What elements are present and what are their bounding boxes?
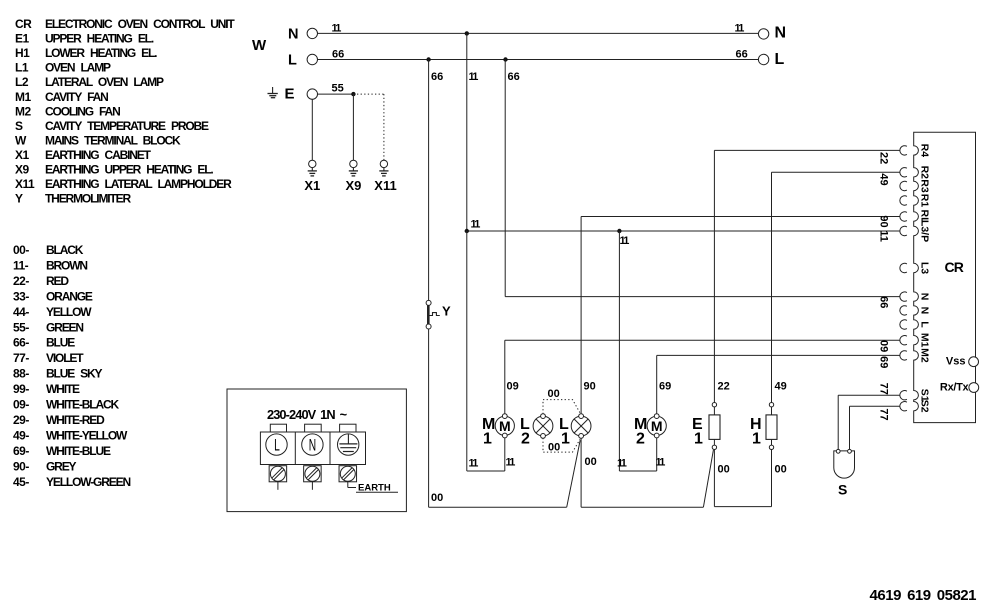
svg-text:00: 00 <box>431 492 443 504</box>
svg-text:L1: L1 <box>15 61 29 75</box>
wire 69 from M2 to CR pin M2 <box>657 355 900 414</box>
svg-text:M2: M2 <box>15 104 31 118</box>
svg-text:L3/P: L3/P <box>919 220 931 242</box>
svg-text:CAVITY TEMPERATURE PROBE: CAVITY TEMPERATURE PROBE <box>45 119 209 133</box>
svg-text:66: 66 <box>508 71 520 83</box>
CR pin labels <box>919 144 931 413</box>
wire 00 bus: E1 bottom to H1 bottom <box>714 506 771 508</box>
terminal W-N <box>288 27 317 43</box>
label 11 below junction <box>620 235 630 247</box>
svg-text:L: L <box>919 321 931 328</box>
terminal W-L <box>288 53 317 69</box>
svg-text:X11: X11 <box>15 177 35 191</box>
legend: wire colour codes <box>13 243 130 489</box>
svg-text:L: L <box>775 51 785 68</box>
svg-text:49: 49 <box>775 381 787 393</box>
wire 77 from S to CR pin S2 <box>850 406 900 449</box>
svg-text:OVEN LAMP: OVEN LAMP <box>45 61 111 75</box>
svg-text:ELECTRONIC OVEN CONTROL UNIT: ELECTRONIC OVEN CONTROL UNIT <box>45 17 235 31</box>
dashed jumper 00 L2 top to L1 top <box>543 388 580 414</box>
part number <box>870 587 977 604</box>
thermolimiter Y <box>426 300 451 329</box>
svg-text:00: 00 <box>548 442 560 454</box>
screw terminal L <box>269 466 287 490</box>
svg-text:W: W <box>15 133 27 147</box>
terminal block W label <box>252 37 267 54</box>
svg-text:M1: M1 <box>15 90 31 104</box>
svg-text:Y: Y <box>15 192 23 206</box>
svg-text:CR: CR <box>15 17 32 31</box>
junctions on L wire <box>426 57 507 61</box>
terminal tabs <box>270 424 356 432</box>
svg-text:11-: 11- <box>13 258 29 272</box>
svg-text:45-: 45- <box>13 475 29 489</box>
svg-text:M1: M1 <box>919 333 931 348</box>
svg-text:99-: 99- <box>13 382 29 396</box>
earthing X9 <box>345 160 361 193</box>
svg-text:R4: R4 <box>919 144 931 158</box>
svg-text:1: 1 <box>483 431 492 448</box>
label 11 right of N wire <box>735 23 745 35</box>
terminal N right <box>758 25 786 42</box>
terminal W-E <box>285 86 318 103</box>
earthing X11 <box>374 160 396 193</box>
wire 66 from L to CR pin N <box>505 60 900 297</box>
svg-text:M: M <box>651 418 663 434</box>
wire 00 bus: Y to L1 bottom <box>429 440 581 507</box>
mains voltage label <box>267 407 347 422</box>
svg-text:Rx/Tx: Rx/Tx <box>940 382 970 394</box>
wire 00 from H1 bottom <box>772 450 787 507</box>
svg-text:90: 90 <box>584 381 596 393</box>
junction on E wire <box>351 92 355 96</box>
svg-text:Vss: Vss <box>946 356 966 368</box>
svg-text:22: 22 <box>718 381 730 393</box>
legend: component list <box>15 17 235 206</box>
earth symbol at E <box>268 87 278 98</box>
svg-text:55: 55 <box>332 83 344 95</box>
svg-text:90: 90 <box>878 215 890 227</box>
electronic oven control unit CR box <box>914 132 976 422</box>
svg-text:X11: X11 <box>374 178 396 193</box>
svg-text:M2: M2 <box>919 348 931 363</box>
svg-text:BLACK: BLACK <box>46 243 84 257</box>
svg-text:22-: 22- <box>13 274 29 288</box>
svg-text:R1: R1 <box>919 194 931 208</box>
mains input block outline <box>227 389 406 512</box>
svg-text:66: 66 <box>736 49 748 61</box>
svg-text:09: 09 <box>878 340 890 352</box>
svg-text:UPPER HEATING EL.: UPPER HEATING EL. <box>45 32 154 46</box>
CR Vss terminal <box>946 356 979 368</box>
svg-text:RED: RED <box>46 274 69 288</box>
earthing X1 <box>304 160 320 193</box>
svg-text:N: N <box>919 293 931 301</box>
wire 00 from E1 bottom <box>714 450 729 507</box>
CR connector socket arcs <box>900 146 907 411</box>
wire 49 from H1 to CR pin R2 <box>772 172 900 402</box>
svg-text:N: N <box>288 27 298 43</box>
svg-text:R2: R2 <box>919 166 931 180</box>
svg-text:S: S <box>15 119 23 133</box>
svg-text:X9: X9 <box>345 178 361 193</box>
svg-text:77-: 77- <box>13 351 29 365</box>
svg-text:00: 00 <box>585 456 597 468</box>
svg-text:E: E <box>285 86 295 103</box>
svg-text:WHITE-YELLOW: WHITE-YELLOW <box>46 428 128 442</box>
svg-text:W: W <box>252 37 267 54</box>
svg-text:CR: CR <box>945 259 964 275</box>
svg-text:69: 69 <box>659 381 671 393</box>
terminal N circle <box>302 434 323 455</box>
svg-text:00: 00 <box>718 464 730 476</box>
label 66 right of L wire <box>736 49 748 61</box>
svg-text:90-: 90- <box>13 459 29 473</box>
rotated wire colour labels at CR pins <box>878 152 890 421</box>
motor M2 <box>634 414 666 448</box>
labels 11 at M2 bottom <box>617 457 665 470</box>
wire 11 down to M1 bottom <box>467 231 505 471</box>
wire 11 from N down <box>467 33 478 231</box>
svg-text:L2: L2 <box>15 75 29 89</box>
wire 55 to X9 <box>352 94 354 160</box>
svg-text:YELLOW: YELLOW <box>46 305 92 319</box>
wire 00 from Y to bottom bus <box>429 329 444 507</box>
wire E to X1 <box>311 99 313 160</box>
svg-text:66: 66 <box>878 296 890 308</box>
svg-text:BLUE: BLUE <box>46 336 75 350</box>
svg-text:BROWN: BROWN <box>46 258 87 272</box>
svg-text:33-: 33- <box>13 289 29 303</box>
wire 00 from L1 bottom down <box>581 438 597 507</box>
svg-text:LATERAL OVEN LAMP: LATERAL OVEN LAMP <box>45 75 164 89</box>
svg-text:88-: 88- <box>13 367 29 381</box>
svg-text:00: 00 <box>548 388 560 400</box>
svg-text:L3: L3 <box>919 262 931 274</box>
svg-text:WHITE: WHITE <box>46 382 80 396</box>
svg-text:CAVITY FAN: CAVITY FAN <box>45 90 108 104</box>
svg-text:X9: X9 <box>15 163 30 177</box>
svg-text:GREEN: GREEN <box>46 320 83 334</box>
terminal L right <box>758 51 784 68</box>
motor M1 <box>482 414 514 448</box>
svg-text:MAINS TERMINAL BLOCK: MAINS TERMINAL BLOCK <box>45 133 181 147</box>
svg-text:EARTHING CABINET: EARTHING CABINET <box>45 148 152 162</box>
screw terminal N <box>304 466 322 490</box>
svg-text:09-: 09- <box>13 398 29 412</box>
lamp L2 <box>520 414 553 448</box>
svg-text:4619 619 05821: 4619 619 05821 <box>870 587 977 604</box>
CR Rx/Tx terminal <box>940 382 979 394</box>
svg-text:1: 1 <box>694 431 703 448</box>
wire N 11 (brown) <box>318 23 759 35</box>
terminal L circle <box>266 434 287 455</box>
svg-text:49-: 49- <box>13 428 29 442</box>
dashed jumper 00 L2 bottom to L1 bottom <box>543 438 580 454</box>
terminal earth circle <box>338 434 359 455</box>
svg-text:29-: 29- <box>13 413 29 427</box>
lamp L1 <box>559 414 591 448</box>
terminal row <box>260 432 365 465</box>
heating element E1 <box>692 403 720 450</box>
svg-text:44-: 44- <box>13 305 29 319</box>
wire E 55 (green) <box>318 83 354 95</box>
svg-text:X1: X1 <box>304 178 320 193</box>
svg-text:ORANGE: ORANGE <box>46 289 93 303</box>
wire 77 from S to CR pin S1 <box>838 395 900 449</box>
svg-text:09: 09 <box>507 381 519 393</box>
svg-text:E1: E1 <box>15 32 30 46</box>
wire 00 bus: L1 bottom to E1 bottom <box>581 450 713 507</box>
junction on N wire <box>465 31 469 35</box>
svg-text:WHITE-BLACK: WHITE-BLACK <box>46 398 119 412</box>
svg-text:S: S <box>838 482 847 498</box>
svg-text:66-: 66- <box>13 336 29 350</box>
svg-text:THERMOLIMITER: THERMOLIMITER <box>45 192 132 206</box>
svg-text:WHITE-BLUE: WHITE-BLUE <box>46 444 111 458</box>
svg-text:69-: 69- <box>13 444 29 458</box>
svg-text:1: 1 <box>561 431 570 448</box>
svg-text:66: 66 <box>431 71 443 83</box>
svg-text:LOWER HEATING EL.: LOWER HEATING EL. <box>45 46 157 60</box>
svg-text:YELLOW-GREEN: YELLOW-GREEN <box>46 475 130 489</box>
svg-text:77: 77 <box>878 383 890 395</box>
screw terminal earth <box>339 466 357 488</box>
svg-text:00-: 00- <box>13 243 29 257</box>
wire 90 from L1 to CR pin RL <box>581 217 900 415</box>
svg-text:N: N <box>309 436 316 454</box>
wire 22 from E1 to CR pin R4 <box>714 150 899 402</box>
svg-text:H1: H1 <box>15 46 30 60</box>
svg-text:00: 00 <box>775 464 787 476</box>
svg-text:M: M <box>499 418 511 434</box>
svg-text:S2: S2 <box>919 400 931 413</box>
svg-text:2: 2 <box>636 431 645 448</box>
svg-text:2: 2 <box>521 431 530 448</box>
svg-text:VIOLET: VIOLET <box>46 351 84 365</box>
temperature probe S <box>834 449 855 497</box>
dashed wire to X11 <box>353 94 384 160</box>
svg-text:230-240V 1N ~: 230-240V 1N ~ <box>267 407 347 422</box>
svg-text:L: L <box>288 53 297 69</box>
wire 11 horizontal to CR pin L3/P <box>467 219 900 232</box>
svg-text:69: 69 <box>878 356 890 368</box>
svg-text:11: 11 <box>878 230 890 242</box>
svg-text:BLUE SKY: BLUE SKY <box>46 367 103 381</box>
svg-text:N: N <box>919 307 931 315</box>
svg-text:R3: R3 <box>919 179 931 193</box>
svg-text:N: N <box>775 25 787 42</box>
svg-text:COOLING FAN: COOLING FAN <box>45 104 120 118</box>
svg-text:Y: Y <box>442 304 451 319</box>
junction dots on 11 wire <box>465 229 622 233</box>
svg-text:L: L <box>274 436 280 454</box>
svg-text:49: 49 <box>878 173 890 185</box>
wire 11 junction down to M2 bottom <box>619 231 656 471</box>
EARTH label <box>356 483 398 494</box>
heating element H1 <box>750 403 777 450</box>
svg-text:66: 66 <box>332 49 344 61</box>
labels 11 at M1 bottom <box>469 457 516 470</box>
svg-text:22: 22 <box>878 152 890 164</box>
svg-text:EARTHING UPPER HEATING EL.: EARTHING UPPER HEATING EL. <box>45 163 213 177</box>
wire 66 from L to thermolimiter Y <box>429 60 444 301</box>
svg-text:GREY: GREY <box>46 459 77 473</box>
svg-text:77: 77 <box>878 408 890 420</box>
svg-text:EARTHING LATERAL LAMPHOLDER: EARTHING LATERAL LAMPHOLDER <box>45 177 232 191</box>
svg-text:1: 1 <box>752 431 761 448</box>
wire L 66 (blue) <box>318 49 759 61</box>
svg-text:X1: X1 <box>15 148 30 162</box>
svg-text:WHITE-RED: WHITE-RED <box>46 413 105 427</box>
svg-text:55-: 55- <box>13 320 29 334</box>
wire 09 from M1 to CR pin M1 <box>505 340 900 414</box>
